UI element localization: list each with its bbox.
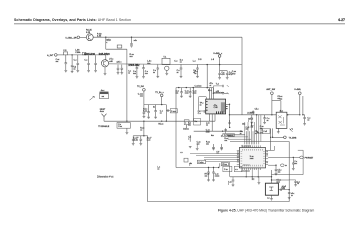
connector TX_ENAB	[284, 136, 287, 139]
ground	[104, 73, 107, 75]
capacitor C4008 to ground	[88, 55, 90, 63]
wire from PA down	[229, 120, 231, 127]
ground	[142, 77, 145, 79]
svg-text:U+5ML: U+5ML	[294, 89, 302, 91]
capacitor C4903	[294, 181, 297, 182]
ground	[154, 117, 157, 119]
ground	[288, 198, 291, 200]
wire PA top pins	[208, 88, 210, 99]
wire vertical right	[302, 150, 304, 174]
svg-text:C-08: C-08	[214, 107, 218, 109]
node C	[71, 54, 72, 55]
svg-text:470: 470	[232, 73, 236, 75]
svg-text:x-x: x-x	[267, 198, 269, 200]
svg-text:xxx: xxx	[133, 73, 136, 75]
ground	[207, 180, 210, 182]
svg-text:xx: xx	[73, 69, 76, 71]
svg-text:xx-5x: xx-5x	[133, 140, 138, 142]
svg-text:xx: xx	[267, 120, 269, 122]
capacitor C4701	[185, 125, 187, 128]
svg-text:x x x x x x: x x x x x x	[243, 164, 250, 166]
capacitor C4007 to ground	[77, 55, 79, 64]
capacitor C4111 to ground	[197, 65, 199, 68]
wire long vertical to antenna switch	[241, 37, 243, 115]
ground	[132, 144, 135, 146]
ground	[180, 76, 183, 78]
node G	[143, 121, 144, 122]
svg-text:x25 x: x25 x	[116, 61, 122, 63]
transistor Q4106	[165, 66, 169, 70]
capacitor C4104 to ground	[157, 65, 159, 68]
svg-text:U+5ML_x: U+5ML_x	[213, 53, 223, 55]
svg-text:xxx: xxx	[102, 96, 105, 98]
svg-text:xx: xx	[177, 72, 179, 74]
boxed net label C-x	[197, 160, 205, 163]
wire to low pass	[303, 114, 305, 116]
svg-text:Schematic Diagrams, Overlays,: Schematic Diagrams, Overlays, and Parts …	[14, 18, 131, 22]
QFP pin stubs right	[266, 150, 269, 164]
svg-text:TX_Ex_x: TX_Ex_x	[155, 92, 164, 94]
resistor R4204	[143, 121, 145, 136]
ground	[232, 185, 235, 187]
svg-text:xx: xx	[266, 151, 268, 153]
ground	[147, 117, 150, 119]
ground	[212, 147, 215, 149]
svg-text:xxx: xxx	[294, 163, 297, 165]
capacitor C4011 to ground	[117, 65, 119, 69]
svg-text:xx: xx	[140, 130, 142, 132]
svg-text:x4x: x4x	[134, 40, 138, 42]
ground	[251, 126, 254, 128]
ground	[220, 147, 223, 149]
svg-text:4C-xxxxx-xxx: 4C-xxxxx-xxx	[241, 146, 251, 148]
wire QFP bottom pins to bus	[245, 170, 247, 177]
capacitor C4203 series	[165, 105, 167, 122]
ground	[126, 133, 129, 135]
svg-text:x: x	[189, 165, 190, 167]
T-2 loop	[213, 85, 222, 87]
ground	[64, 71, 67, 73]
ground	[189, 146, 192, 148]
wire filter bottom leg	[176, 167, 219, 169]
svg-text:C-xxx: C-xxx	[171, 111, 176, 113]
node B	[131, 37, 132, 38]
svg-text:xx: xx	[157, 169, 159, 171]
QFP inner pin marks	[242, 149, 262, 151]
wire pin to antenna line	[268, 149, 274, 151]
wire	[271, 95, 273, 115]
ground	[277, 132, 280, 134]
capacitor C4012 to ground	[121, 65, 123, 69]
filter FL4050 top bar	[100, 92, 109, 94]
capacitor C4901 row	[251, 177, 253, 180]
svg-text:x-xx: x-xx	[282, 188, 285, 190]
svg-text:xx: xx	[180, 62, 182, 64]
inductor L4503 coil	[214, 92, 224, 93]
svg-text:xx: xx	[153, 72, 155, 74]
diode D4605a	[278, 116, 282, 124]
svg-text:4xx: 4xx	[147, 63, 151, 65]
svg-text:C5-xx: C5-xx	[222, 164, 227, 166]
wire driver feed down	[206, 65, 208, 88]
svg-text:x-x: x-x	[180, 152, 182, 154]
svg-text:xxx: xxx	[206, 143, 209, 145]
wire bus 131	[194, 130, 242, 132]
capacitor C4601 to ground	[251, 115, 253, 118]
ground	[117, 73, 120, 75]
capacitor C4602 second	[251, 126, 254, 127]
capacitor C4705	[225, 128, 227, 133]
ground	[71, 71, 74, 73]
ground	[294, 185, 297, 187]
wire	[229, 162, 231, 177]
QFP pin stubs top	[242, 145, 260, 147]
capacitor C4006 to ground	[71, 55, 73, 65]
capacitor C4003	[131, 37, 133, 43]
svg-text:x-x: x-x	[235, 169, 237, 171]
svg-text:U+5MXx: U+5MXx	[247, 113, 254, 115]
ground	[94, 71, 97, 73]
adjust arrow	[90, 96, 95, 100]
wire PWR_SET line	[268, 156, 300, 158]
ground	[143, 116, 146, 118]
svg-text:C-xx/xxx: C-xx/xxx	[195, 86, 202, 88]
boxed net label x-x	[234, 166, 242, 171]
svg-text:5x: 5x	[297, 183, 299, 185]
node F	[126, 121, 127, 122]
power control IC U4801 body	[239, 148, 265, 168]
wire coupling path	[105, 37, 107, 49]
wire	[221, 144, 223, 147]
wire emitter	[104, 67, 106, 73]
svg-text:ANT_SW: ANT_SW	[266, 88, 275, 91]
svg-text:TX_INJ: TX_INJ	[137, 86, 144, 88]
svg-text:C-x5: C-x5	[263, 131, 267, 133]
svg-text:TX_ENB: TX_ENB	[289, 137, 297, 139]
capacitor C4905 left	[232, 177, 234, 180]
capacitor C4402 to ground	[189, 88, 191, 92]
svg-text:4x-x: 4x-x	[101, 90, 105, 92]
wire	[143, 91, 145, 104]
ground	[263, 122, 266, 124]
ground	[228, 123, 231, 125]
capacitor C5-x above wire	[252, 110, 254, 115]
wire	[57, 54, 63, 56]
QFP pin stubs bottom	[242, 168, 260, 170]
boxed net label 3	[194, 118, 201, 125]
transistor Q4001	[86, 34, 93, 41]
capacitor C4015 to ground	[65, 55, 67, 63]
capacitor C4114 to ground	[226, 71, 228, 74]
node A	[105, 37, 106, 38]
capacitor C4009 to ground	[95, 55, 97, 63]
wire bypass branch	[219, 65, 221, 71]
wire	[68, 54, 106, 56]
svg-text:xx: xx	[160, 113, 162, 115]
ground	[218, 78, 221, 80]
svg-text:R45-R520: R45-R520	[99, 53, 111, 56]
PA right pin marks	[226, 107, 228, 109]
capacitor C4806	[275, 165, 277, 169]
wire PA input bus	[176, 87, 207, 89]
svg-text:xxx: xxx	[224, 140, 227, 142]
wire enable bus	[103, 120, 105, 122]
svg-text:L-8: L-8	[211, 59, 215, 61]
svg-text:4xx: 4xx	[211, 135, 214, 137]
capacitor C4301	[132, 136, 134, 139]
PA module inner pad	[221, 102, 225, 112]
wire collector bus	[93, 36, 242, 38]
svg-text:C-xx: C-xx	[224, 169, 228, 171]
svg-text:xx: xx	[128, 72, 130, 74]
ground	[258, 183, 261, 185]
wire	[126, 128, 128, 132]
ground	[87, 71, 90, 73]
svg-text:xxxx: xxxx	[206, 131, 210, 133]
svg-text:x: x	[248, 120, 249, 122]
transistor Q4010	[105, 55, 107, 60]
ground	[76, 71, 79, 73]
svg-text:C-x: C-x	[198, 113, 201, 115]
svg-text:x: x	[185, 122, 186, 124]
wire bus 139.2	[228, 138, 251, 140]
svg-text:C-x: C-x	[194, 121, 197, 123]
wire switch leg 1	[270, 128, 272, 150]
ground	[196, 76, 199, 78]
node D	[219, 64, 220, 65]
svg-text:C4x/xx: C4x/xx	[183, 128, 189, 130]
small box component	[184, 158, 188, 162]
svg-text:x40: x40	[109, 61, 113, 63]
ground	[180, 96, 183, 98]
wire	[80, 36, 87, 38]
svg-text:xx: xx	[307, 120, 309, 122]
svg-text:xxx: xxx	[205, 175, 208, 177]
ground	[250, 122, 253, 124]
svg-text:xxxx: xxxx	[185, 93, 189, 95]
antenna switch D4605 box	[276, 112, 287, 128]
svg-text:4xxx: 4xxx	[100, 111, 104, 113]
svg-text:xxxx: xxxx	[193, 93, 197, 95]
svg-text:xx: xx	[266, 154, 268, 156]
capacitor C4804 to ground	[213, 168, 215, 173]
svg-text:C-xx: C-xx	[118, 126, 122, 128]
wire into pass transistor	[271, 170, 273, 183]
svg-text:TX ENABLE: TX ENABLE	[98, 125, 110, 128]
svg-text:xx: xx	[200, 104, 202, 106]
svg-text:x: x	[228, 183, 229, 185]
svg-text:L-x: L-x	[193, 60, 197, 62]
svg-text:471: 471	[229, 74, 232, 76]
capacitor C4303	[140, 136, 142, 139]
svg-text:C-x: C-x	[74, 60, 77, 62]
wire box output	[278, 189, 289, 191]
wire switch out	[287, 114, 300, 116]
wire PA bottom pins down	[208, 114, 210, 121]
svg-text:xxx.xxx.xxx: xxx.xxx.xxx	[241, 170, 249, 172]
svg-text:R5-x/xx: R5-x/xx	[257, 133, 263, 135]
capacitor C4703	[261, 128, 263, 131]
svg-text:xxx: xxx	[278, 171, 281, 173]
svg-text:C-8: C-8	[198, 59, 202, 61]
ground	[226, 78, 229, 80]
capacitor C4606 to ground	[303, 118, 306, 119]
PA pins bottom	[217, 111, 223, 113]
wire	[256, 115, 258, 145]
ground	[270, 199, 273, 201]
svg-text:xxx: xxx	[130, 56, 134, 58]
capacitor C4805 to ground	[292, 157, 294, 163]
wire pin3	[268, 164, 276, 166]
svg-text:TX_ENABLE: TX_ENABLE	[224, 134, 235, 137]
wire box emitter	[271, 195, 273, 198]
series capacitor C4906	[280, 188, 281, 191]
ground	[120, 73, 123, 75]
ground	[220, 149, 223, 151]
capacitor C4109 to ground	[180, 65, 182, 68]
boxed net label C-xx	[223, 166, 232, 171]
wire driver chain	[109, 63, 242, 66]
wire	[219, 57, 221, 64]
svg-text:xx: xx	[206, 124, 208, 126]
boxed net label C-x5	[263, 129, 271, 134]
svg-text:4R05-R30: 4R05-R30	[84, 53, 96, 56]
svg-text:C30A: C30A	[75, 51, 81, 54]
transformer T4105 box	[162, 58, 170, 64]
svg-text:A_INT: A_INT	[47, 54, 54, 57]
wire control loop right edge	[288, 142, 290, 202]
Q4902 internal	[269, 187, 273, 190]
capacitor C4603 to ground	[264, 115, 266, 118]
svg-text:C4x: C4x	[242, 123, 245, 125]
svg-text:xxx: xxx	[188, 124, 191, 126]
node E	[207, 64, 208, 65]
svg-text:xx: xx	[291, 195, 293, 197]
PA pins left	[206, 101, 208, 110]
svg-text:xx: xx	[237, 151, 239, 153]
wire	[133, 135, 147, 137]
svg-text:R505-R52: R505-R52	[129, 64, 141, 67]
ground	[212, 149, 215, 151]
QFP pin stubs left	[237, 151, 240, 165]
svg-text:xx: xx	[285, 165, 287, 167]
svg-text:x: x	[106, 42, 108, 44]
ground	[136, 77, 139, 79]
wire bus 136.9	[228, 136, 248, 138]
svg-text:xxxxx: xxxxx	[215, 175, 220, 177]
capacitor C4202 to ground	[155, 105, 157, 111]
diode D4605b	[280, 117, 285, 125]
svg-text:xxxx: xxxx	[250, 158, 254, 160]
boxed net label	[170, 109, 177, 113]
svg-text:C-x/xx: C-x/xx	[198, 162, 203, 164]
svg-text:470: 470	[221, 74, 224, 76]
svg-text:4x: 4x	[153, 107, 155, 109]
boxed net label C5-xx	[221, 163, 228, 166]
ground	[196, 149, 199, 151]
ground	[165, 73, 168, 75]
svg-text:R5-xx: R5-xx	[158, 124, 163, 126]
capacitor C4014 series	[82, 52, 86, 55]
wire	[213, 144, 215, 147]
wire comb to QFP top	[244, 122, 246, 144]
svg-text:xx: xx	[266, 162, 268, 164]
ground	[130, 46, 133, 48]
wire bus 134.7	[226, 134, 245, 136]
ground	[292, 169, 295, 171]
ground	[275, 174, 278, 176]
svg-text:4-27: 4-27	[338, 18, 345, 22]
wire bias vertical	[126, 49, 128, 121]
svg-text:Dimension 4-xx: Dimension 4-xx	[97, 176, 114, 179]
boxed net label 4	[184, 120, 189, 125]
wire	[161, 97, 163, 105]
node J	[270, 137, 271, 138]
svg-text:x: x	[290, 129, 291, 131]
capacitor C4401 to ground	[181, 88, 183, 92]
diode arrow mark	[289, 129, 292, 132]
wire QFP left bus lines	[190, 153, 239, 155]
svg-text:xx: xx	[210, 85, 212, 87]
svg-text:xxx: xxx	[216, 153, 219, 155]
wire emitter	[166, 71, 168, 74]
capacitor C4201 to ground	[148, 105, 150, 112]
wire matching bus	[144, 104, 166, 106]
connector PWR_SET	[300, 156, 304, 159]
net label oval xx	[280, 164, 284, 167]
svg-text:C-x: C-x	[84, 60, 87, 62]
wire antenna feed	[299, 95, 301, 115]
svg-text:C5-x: C5-x	[255, 109, 259, 111]
series capacitor to box	[166, 110, 170, 112]
svg-text:C-x: C-x	[174, 60, 178, 62]
node H	[229, 104, 230, 105]
svg-text:xx: xx	[194, 73, 197, 75]
wire node to PA	[193, 88, 195, 122]
ground	[303, 124, 306, 126]
ground	[189, 96, 192, 98]
svg-text:Figure 4-25. UHF (403-470 MHz): Figure 4-25. UHF (403-470 MHz) Transmitt…	[218, 209, 314, 213]
PA module U4502 body	[206, 99, 226, 114]
wire control loop top edge	[230, 141, 289, 143]
wire control loop left edge	[147, 136, 149, 202]
svg-text:x: x	[188, 138, 189, 140]
wire switch input bus	[230, 114, 277, 116]
capacitor C4101 to ground	[136, 64, 137, 65]
capacitor C4113 to ground	[219, 71, 221, 74]
wire	[196, 144, 198, 148]
svg-text:R5-x: R5-x	[208, 90, 212, 92]
node K	[289, 189, 290, 190]
pass transistor Q4902 box	[265, 183, 278, 195]
ground	[156, 76, 159, 78]
wire control loop bottom	[148, 201, 290, 203]
wire filter left vertical	[175, 88, 177, 168]
capacitor C4802	[219, 163, 221, 167]
test point TP4501 box	[198, 96, 206, 111]
svg-text:xx: xx	[237, 154, 239, 156]
resistor R4002	[117, 45, 122, 48]
wire switch leg 2	[272, 128, 274, 137]
ground	[212, 180, 215, 182]
svg-text:T-2: T-2	[216, 83, 220, 85]
svg-text:PWRSET: PWRSET	[305, 158, 314, 160]
resistor R4803 to ground	[208, 168, 210, 173]
wire PA output	[226, 103, 230, 105]
svg-text:xxx: xxx	[140, 96, 143, 98]
capacitor C4102 to ground	[143, 65, 145, 68]
svg-text:xxx: xxx	[56, 61, 59, 63]
